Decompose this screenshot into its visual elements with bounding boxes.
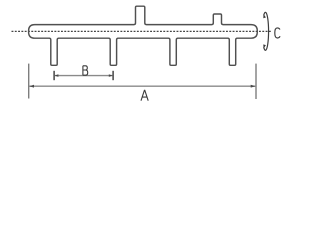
label B xyxy=(83,66,88,75)
label C xyxy=(275,28,280,38)
arrowhead left of B xyxy=(55,74,59,77)
dimension C arc (curved double arrow at right end) xyxy=(264,12,269,50)
centerline (dashed axis) xyxy=(12,30,272,32)
dimension line A xyxy=(29,85,255,87)
extension line left of A xyxy=(28,64,30,99)
dimension line B xyxy=(55,75,113,77)
arrowhead right of B xyxy=(109,74,113,77)
label A xyxy=(141,90,148,100)
arrowhead left of A xyxy=(29,85,34,88)
tick left of B xyxy=(53,71,55,80)
arrowhead right of A xyxy=(251,85,256,88)
part outline (shaft body with 2 top tabs and 4 bottom legs) xyxy=(29,6,258,65)
arrowhead top of C arc xyxy=(263,14,266,18)
tick right of B xyxy=(112,71,114,80)
arrowhead bottom of C arc xyxy=(263,44,266,48)
extension line right of A xyxy=(255,64,257,99)
